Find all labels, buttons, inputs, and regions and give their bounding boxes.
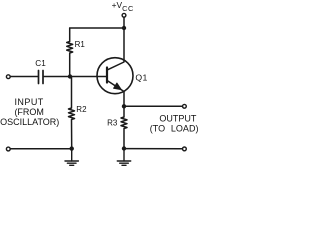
svg-text:R3: R3 <box>107 118 118 127</box>
wire top rail <box>70 27 124 29</box>
ground right <box>117 149 130 166</box>
wire VCC stub <box>123 17 125 28</box>
node bottom right junction <box>122 146 126 150</box>
svg-text:INPUT: INPUT <box>14 97 43 107</box>
ground left <box>65 149 78 166</box>
wire R3 node to output bottom terminal <box>124 148 182 150</box>
svg-text:(TO LOAD): (TO LOAD) <box>150 124 199 134</box>
resistor R2 <box>69 77 75 149</box>
wire C1 to base node <box>44 76 70 78</box>
svg-text:C1: C1 <box>35 59 46 68</box>
node base junction <box>68 74 72 78</box>
label OUTPUT (TO LOAD) <box>150 114 199 134</box>
resistor R3 <box>121 106 127 148</box>
svg-text:+VCC: +VCC <box>112 0 134 13</box>
label INPUT (FROM OSCILLATOR) <box>0 97 59 127</box>
input terminal top <box>6 75 10 79</box>
input terminal bottom <box>6 147 10 151</box>
output terminal top <box>183 104 187 108</box>
svg-text:R1: R1 <box>75 40 86 49</box>
wire emitter node to output terminal <box>124 105 182 107</box>
VCC terminal <box>122 13 126 17</box>
svg-text:OUTPUT: OUTPUT <box>159 114 197 124</box>
node emitter junction <box>122 104 126 108</box>
wire base node to Q1 base <box>70 76 107 78</box>
output terminal bottom <box>183 147 187 151</box>
transistor Q1 <box>97 28 133 106</box>
resistor R1 <box>67 28 73 77</box>
svg-text:OSCILLATOR): OSCILLATOR) <box>0 117 59 127</box>
svg-text:Q1: Q1 <box>135 72 147 82</box>
wire input to C1 <box>10 76 38 78</box>
capacitor C1 <box>39 71 44 84</box>
wire input bottom <box>10 148 71 150</box>
svg-text:R2: R2 <box>76 105 87 114</box>
node bottom left junction <box>70 146 74 150</box>
svg-text:(FROM: (FROM <box>14 107 44 117</box>
node VCC junction <box>122 26 126 30</box>
